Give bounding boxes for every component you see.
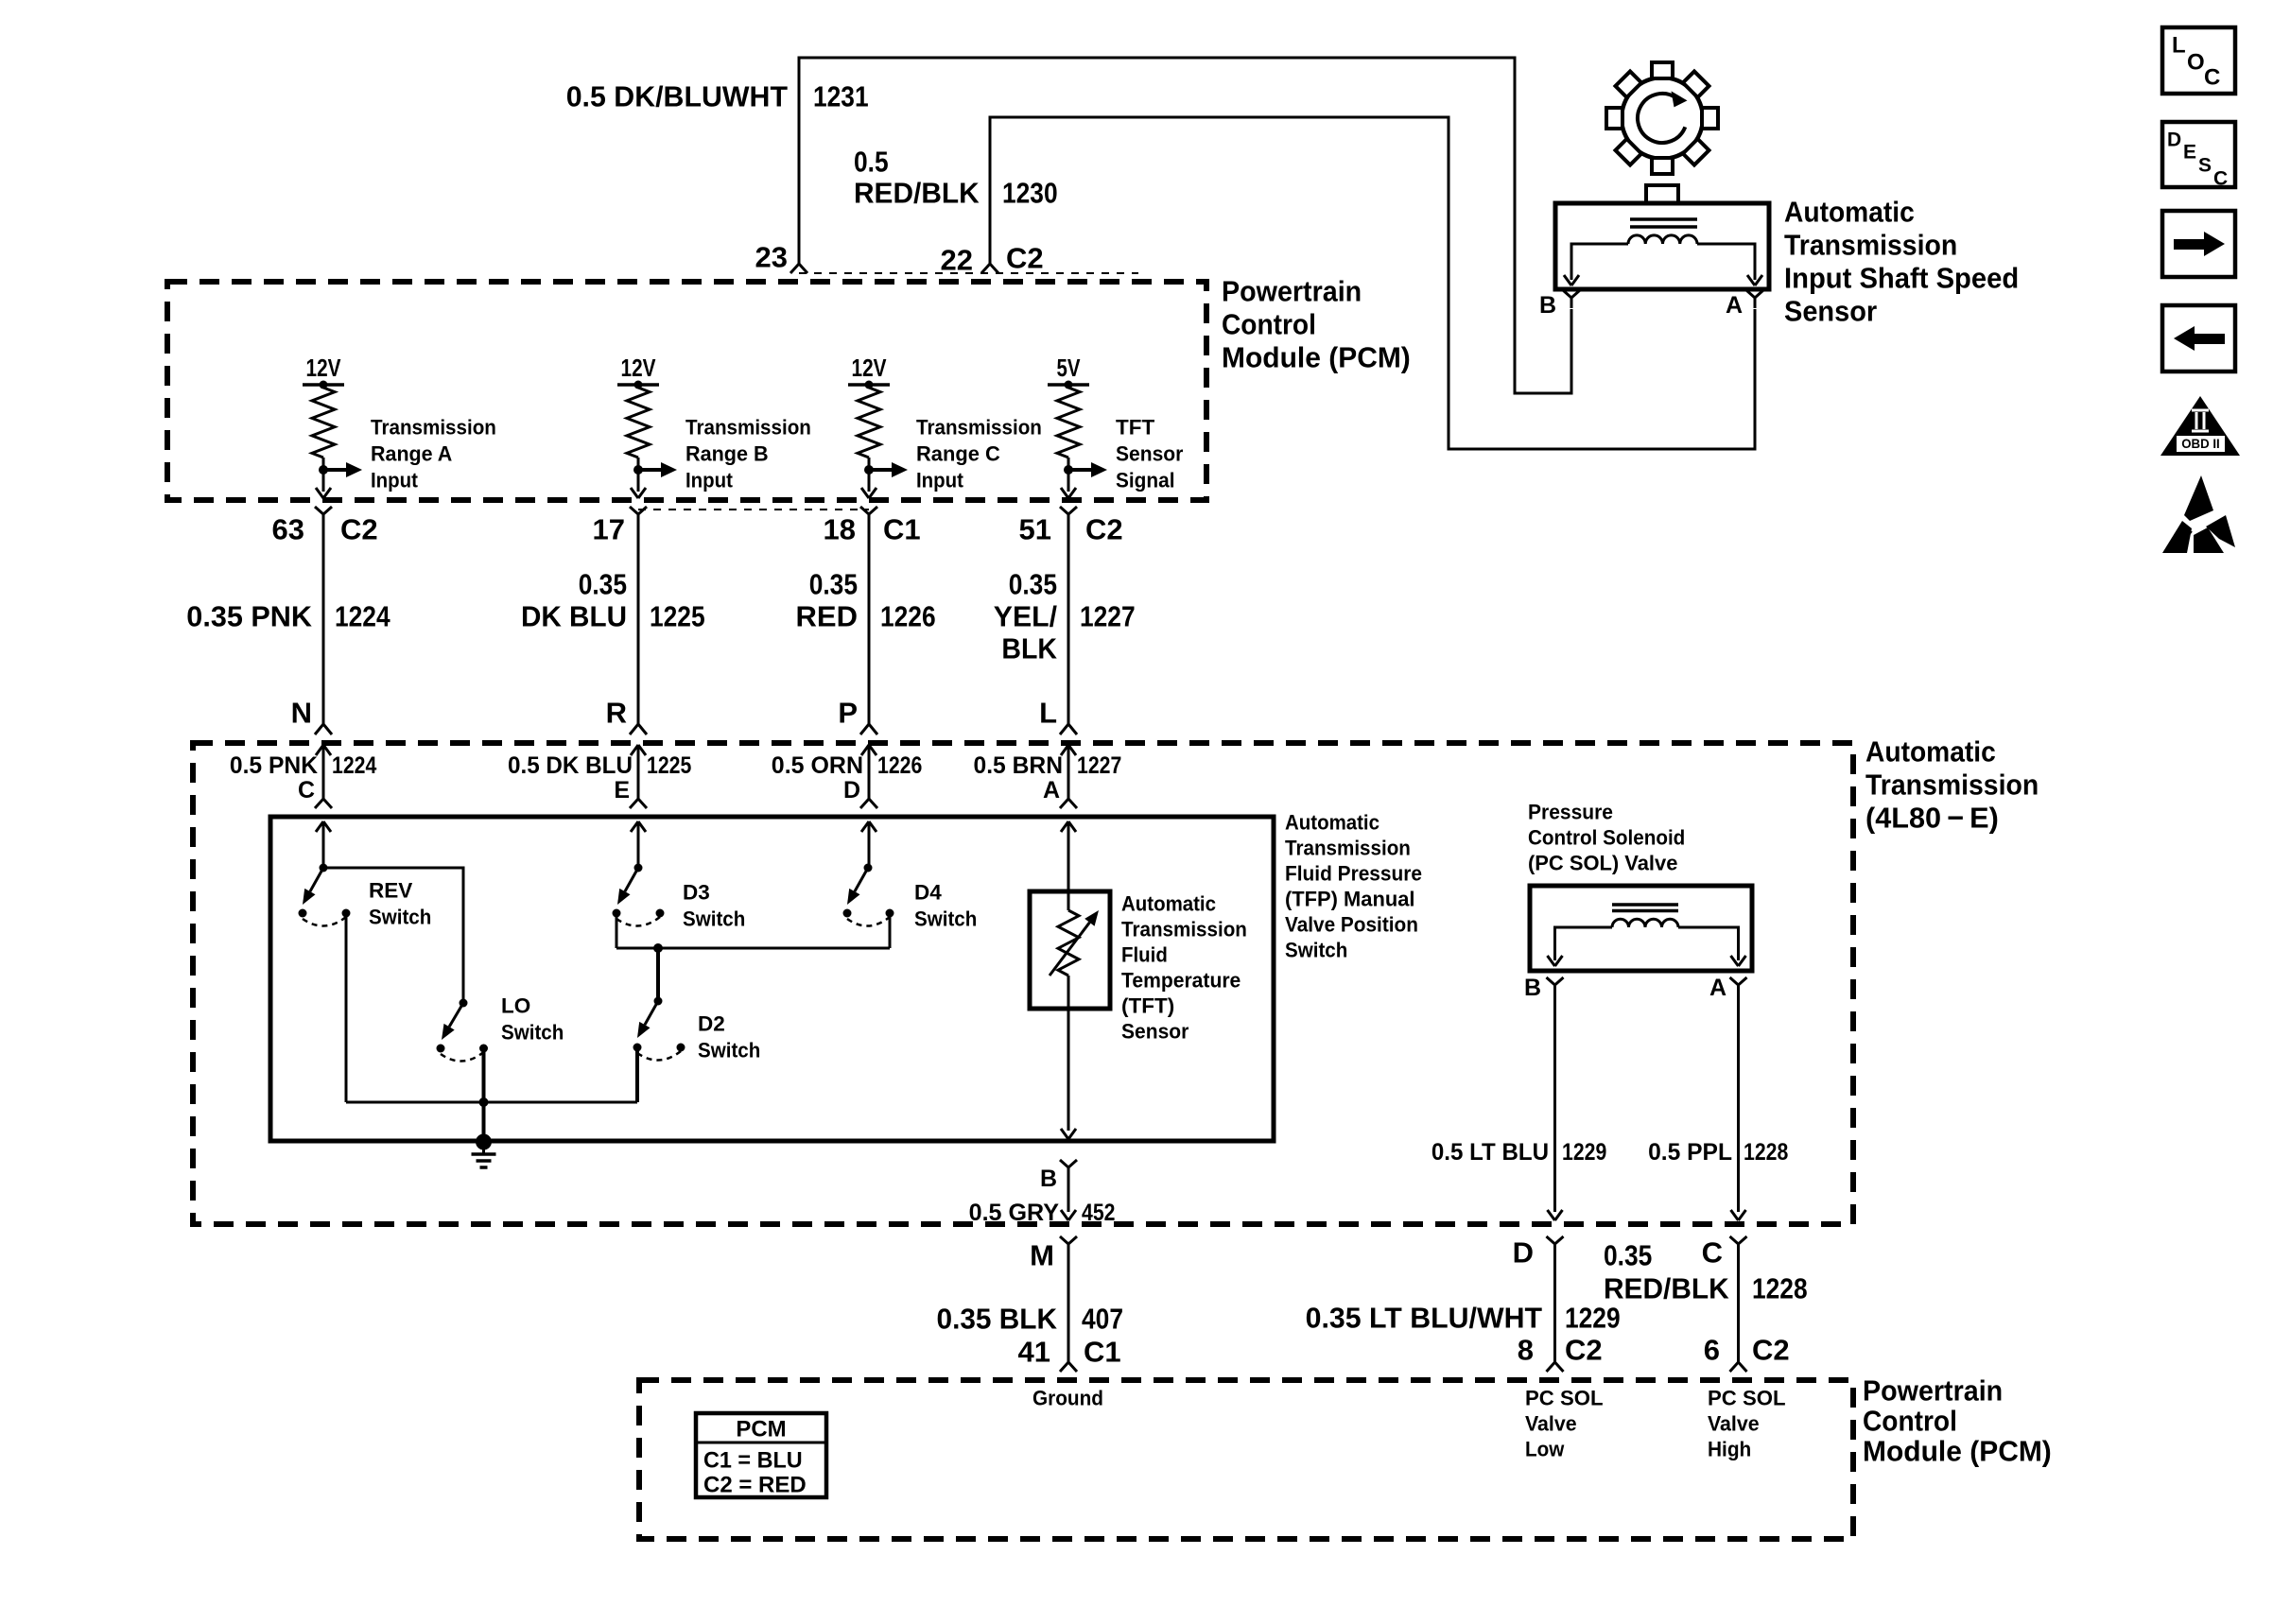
ISS inductor core (1630, 219, 1697, 227)
label 0.5 LT BLU 1229 (1431, 1139, 1606, 1166)
svg-text:Module (PCM): Module (PCM) (1222, 341, 1411, 374)
svg-text:Automatic: Automatic (1865, 735, 1996, 769)
TFP entry arrow col 3 (861, 821, 876, 868)
svg-text:17: 17 (593, 513, 625, 546)
svg-text:D4: D4 (914, 881, 942, 905)
svg-text:22: 22 (941, 244, 973, 277)
label 0.35 PNK 1224 (186, 600, 390, 633)
TFP entry arrow TFT column (1061, 821, 1076, 891)
svg-text:0.35: 0.35 (1604, 1239, 1652, 1272)
PCM connector legend table (696, 1413, 826, 1498)
svg-text:41: 41 (1018, 1336, 1050, 1369)
TFP entry arrow col 2 (631, 821, 646, 868)
svg-text:R: R (606, 697, 627, 730)
svg-text:Transmission: Transmission (1784, 229, 1957, 262)
svg-text:1224: 1224 (332, 752, 376, 779)
node N (291, 697, 312, 730)
svg-text:6: 6 (1704, 1334, 1720, 1367)
svg-text:N: N (291, 697, 312, 730)
label RED 1226 (796, 568, 936, 633)
wire LO contact to ground junction (482, 1048, 486, 1102)
svg-text:Switch: Switch (698, 1039, 760, 1063)
svg-text:D: D (1513, 1236, 1534, 1270)
D3 switch (613, 864, 665, 926)
wire 1229 PC SOL B to PCM (1548, 994, 1563, 1220)
svg-text:Transmission: Transmission (1285, 837, 1411, 860)
node P (838, 697, 858, 730)
label LO Switch (501, 994, 564, 1045)
svg-text:5V: 5V (1057, 354, 1082, 382)
pin M connector (1030, 1236, 1077, 1272)
svg-text:C2: C2 (1006, 242, 1044, 275)
svg-text:C: C (2213, 168, 2228, 190)
ISS sensor tab (1646, 185, 1678, 203)
label 0.5 DK/BLUWHT 1231 (566, 80, 869, 113)
wire 1228 PC SOL A to PCM (1731, 994, 1746, 1220)
svg-text:0.5 PNK: 0.5 PNK (230, 752, 318, 779)
svg-text:Valve Position: Valve Position (1285, 913, 1418, 937)
wire 1225 into TFP switch pin E (630, 745, 647, 808)
label Automatic Transmission Fluid Temperature (TFT) Sensor (1121, 892, 1247, 1044)
wire switch common bus (346, 1101, 637, 1104)
wire 1229 to pin 8 (1547, 1250, 1564, 1372)
wire REV pivot to LO switch (323, 868, 463, 1003)
svg-text:23: 23 (755, 241, 788, 274)
label pin 41 C1 (1018, 1336, 1121, 1369)
LO switch (437, 999, 489, 1062)
svg-text:Sensor: Sensor (1784, 295, 1877, 328)
svg-text:18: 18 (824, 513, 856, 546)
svg-text:A: A (1043, 777, 1060, 803)
label D3 Switch (683, 881, 745, 931)
label TFT Sensor Signal (1116, 416, 1184, 492)
label 0.5 RED/BLK 1230 (854, 146, 1058, 210)
svg-text:0.35: 0.35 (1009, 568, 1057, 601)
svg-text:1229: 1229 (1565, 1302, 1621, 1335)
svg-text:DK BLU: DK BLU (521, 600, 627, 633)
svg-text:BLK: BLK (1001, 632, 1057, 665)
svg-text:0.35 PNK: 0.35 PNK (186, 600, 312, 633)
svg-text:63: 63 (272, 513, 304, 546)
D2 switch (633, 997, 685, 1061)
label 0.5 PPL 1228 (1648, 1139, 1788, 1166)
PC SOL valve box (1530, 886, 1752, 971)
svg-text:Transmission: Transmission (371, 416, 496, 440)
svg-text:1229: 1229 (1562, 1139, 1606, 1166)
svg-text:TFT: TFT (1116, 416, 1154, 440)
pin 22 connector chevron (981, 264, 998, 273)
svg-text:PC SOL: PC SOL (1708, 1387, 1786, 1410)
svg-text:(4L80 − E): (4L80 − E) (1865, 802, 1999, 835)
svg-text:0.5 BRN: 0.5 BRN (974, 752, 1064, 779)
pin 23 connector chevron (790, 264, 807, 273)
svg-text:RED: RED (796, 600, 859, 633)
svg-text:C1: C1 (1084, 1336, 1121, 1369)
svg-text:Range C: Range C (916, 442, 1000, 466)
Powertrain Control Module (PCM) dashed box top (167, 282, 1206, 500)
ISS sensor box (1555, 203, 1769, 289)
PC SOL lead B (1548, 927, 1613, 966)
wire 407 ground wire (1060, 1250, 1077, 1372)
pin C connector (1702, 1236, 1747, 1270)
svg-text:Switch: Switch (914, 907, 977, 931)
svg-text:High: High (1708, 1438, 1751, 1461)
thin dashed connector line pins 23-22 (799, 272, 1138, 274)
label D4 Switch (914, 881, 977, 931)
svg-text:Transmission: Transmission (1865, 769, 2039, 802)
svg-text:0.5 ORN: 0.5 ORN (772, 752, 863, 779)
svg-text:1226: 1226 (877, 752, 922, 779)
svg-text:Valve: Valve (1708, 1412, 1760, 1436)
PC SOL lead A (1678, 927, 1746, 966)
svg-text:D: D (2167, 130, 2181, 151)
svg-text:C1: C1 (883, 513, 921, 546)
label Automatic Transmission Input Shaft Speed Sensor (1784, 196, 2019, 328)
svg-text:Fluid: Fluid (1121, 943, 1168, 967)
label pin 6 C2 (1704, 1334, 1790, 1367)
ISS pin B connector (1539, 290, 1580, 319)
wire 1226 from PCM to transmission pin P (860, 522, 877, 734)
label 0.5 ORN 1226 pin D (772, 752, 923, 803)
svg-text:1225: 1225 (650, 600, 705, 633)
svg-text:Input: Input (916, 469, 963, 492)
junction dot D2 branch (653, 943, 663, 953)
pin 17 connector (593, 507, 647, 546)
wire 1225 from PCM to transmission pin R (630, 522, 647, 734)
svg-text:Input Shaft Speed: Input Shaft Speed (1784, 262, 2019, 295)
resistor pull-up 12V Transmission Range C (848, 354, 908, 498)
pin D connector (1513, 1236, 1564, 1270)
svg-text:Automatic: Automatic (1784, 196, 1915, 229)
PC SOL coil (1612, 919, 1678, 927)
TFP entry arrow col 1 (316, 821, 331, 868)
label DK BLU 1225 (521, 568, 705, 633)
svg-text:REV: REV (369, 879, 412, 903)
label YEL/ 1227 (994, 568, 1136, 665)
svg-text:C1 = BLU: C1 = BLU (703, 1448, 803, 1474)
pin B connector TFT output (1040, 1160, 1077, 1192)
svg-text:51: 51 (1019, 513, 1051, 546)
wire D2 contact to bus (635, 1047, 639, 1102)
svg-text:B: B (1539, 292, 1556, 319)
resistor pull-up 5V Transmission Range TFT (1048, 354, 1107, 498)
svg-text:Transmission: Transmission (916, 416, 1042, 440)
svg-text:452: 452 (1082, 1200, 1116, 1226)
node L (1039, 697, 1057, 730)
svg-text:(PC SOL) Valve: (PC SOL) Valve (1528, 852, 1677, 875)
label Transmission Range B Input (685, 416, 811, 492)
svg-text:Automatic: Automatic (1121, 892, 1216, 916)
label D2 Switch (698, 1012, 760, 1063)
D4 switch (843, 864, 894, 926)
junction dot ground branch (479, 1097, 489, 1107)
svg-text:Input: Input (371, 469, 418, 492)
svg-text:Control: Control (1863, 1405, 1957, 1438)
label Powertrain Control Module (PCM) bottom (1863, 1374, 2052, 1468)
label 0.5 PNK 1224 pin C (230, 752, 376, 803)
label PC SOL Valve High (1708, 1387, 1786, 1461)
label 0.5 BRN 1227 pin A (974, 752, 1122, 803)
icon DESC box (2162, 122, 2235, 190)
svg-text:0.5: 0.5 (854, 146, 889, 179)
Automatic Transmission (4L80-E) dashed box (193, 743, 1853, 1224)
svg-text:Sensor: Sensor (1116, 442, 1184, 466)
icon LOC box (2162, 27, 2235, 94)
wire 1230 (0.5 RED/BLK) from PCM pin 22 to ISS sensor pin A (990, 117, 1755, 449)
label Pressure Control Solenoid (PC SOL) Valve (1528, 801, 1685, 875)
wire 1228 to pin 6 (1730, 1250, 1747, 1372)
svg-text:Range A: Range A (371, 442, 452, 466)
PC SOL pin A (1709, 975, 1747, 1001)
svg-text:PCM: PCM (736, 1417, 786, 1443)
wire D4 contact down (889, 913, 892, 948)
svg-text:Switch: Switch (369, 906, 431, 929)
ISS inner lead A (1697, 244, 1762, 285)
svg-text:Powertrain: Powertrain (1863, 1374, 2003, 1408)
wire TFT to box bottom (1061, 1009, 1076, 1139)
label REV Switch (369, 879, 431, 929)
svg-text:C: C (1702, 1236, 1723, 1270)
svg-text:C: C (298, 777, 315, 803)
label Automatic Transmission Fluid Pressure (TFP) Manual Valve Position Switch (1285, 811, 1422, 962)
svg-text:A: A (1709, 975, 1726, 1001)
label 0.35 RED/BLK 1228 (1604, 1239, 1808, 1305)
svg-text:407: 407 (1082, 1303, 1123, 1336)
svg-text:Transmission: Transmission (685, 416, 811, 440)
svg-text:12V: 12V (621, 354, 657, 382)
svg-text:1228: 1228 (1752, 1272, 1808, 1305)
svg-text:1226: 1226 (880, 600, 936, 633)
resistor pull-up 12V Transmission Range B (617, 354, 677, 498)
svg-text:D3: D3 (683, 881, 710, 905)
label Powertrain Control Module (PCM) top (1222, 275, 1411, 374)
wire 1227 from PCM to transmission pin L (1060, 522, 1077, 734)
svg-text:(TFP) Manual: (TFP) Manual (1285, 888, 1415, 911)
svg-text:8: 8 (1518, 1334, 1534, 1367)
REV switch (299, 864, 351, 926)
svg-text:RED/BLK: RED/BLK (854, 177, 980, 210)
svg-text:O: O (2187, 50, 2205, 76)
thin dashed connector line pins 17-18 (638, 509, 869, 510)
wire D3-D4 horizontal link (616, 947, 890, 950)
svg-text:Module (PCM): Module (PCM) (1863, 1435, 2052, 1468)
svg-text:Control: Control (1222, 308, 1316, 341)
svg-text:D2: D2 (698, 1012, 725, 1036)
svg-text:Range B: Range B (685, 442, 769, 466)
label PC SOL Valve Low (1525, 1387, 1604, 1461)
svg-text:P: P (838, 697, 858, 730)
label 0.5 GRY 452 (969, 1200, 1116, 1226)
svg-text:YEL/: YEL/ (994, 600, 1058, 633)
label 0.35 BLK 407 (937, 1303, 1124, 1336)
svg-text:Temperature: Temperature (1121, 969, 1241, 993)
svg-text:1228: 1228 (1744, 1139, 1788, 1166)
svg-text:S: S (2198, 155, 2212, 177)
icon left-arrow box (2162, 305, 2235, 371)
svg-text:C2 = RED: C2 = RED (703, 1473, 807, 1498)
svg-text:C2: C2 (340, 513, 378, 546)
wire REV contact to bus (345, 913, 348, 1102)
svg-text:C2: C2 (1752, 1334, 1790, 1367)
svg-text:Transmission: Transmission (1121, 918, 1247, 942)
svg-text:L: L (1039, 697, 1057, 730)
PC SOL pin B (1524, 975, 1564, 1001)
svg-text:Ground: Ground (1032, 1387, 1103, 1410)
pin 63 C2 connector (272, 507, 378, 546)
TFT sensor element (1050, 891, 1099, 1009)
svg-text:(TFT): (TFT) (1121, 994, 1174, 1018)
label 0.35 LT BLU/WHT 1229 (1306, 1302, 1621, 1335)
Powertrain Control Module (PCM) dashed box bottom (639, 1380, 1853, 1539)
svg-text:1230: 1230 (1002, 177, 1058, 210)
svg-text:PC SOL: PC SOL (1525, 1387, 1604, 1410)
svg-text:C2: C2 (1565, 1334, 1603, 1367)
svg-text:12V: 12V (306, 354, 342, 382)
wire D3 contact down (616, 913, 618, 948)
label Transmission Range A Input (371, 416, 496, 492)
label pin 8 C2 (1518, 1334, 1603, 1367)
svg-text:Low: Low (1525, 1438, 1565, 1461)
svg-text:0.5 DK/BLUWHT: 0.5 DK/BLUWHT (566, 80, 788, 113)
svg-text:L: L (2172, 33, 2186, 59)
svg-text:Switch: Switch (1285, 939, 1347, 962)
svg-text:0.35 BLK: 0.35 BLK (937, 1303, 1058, 1336)
svg-text:0.5 LT BLU: 0.5 LT BLU (1431, 1139, 1549, 1166)
label Automatic Transmission (4L80-E) (1865, 735, 2039, 835)
svg-text:A: A (1726, 292, 1743, 319)
svg-text:Control Solenoid: Control Solenoid (1528, 826, 1685, 850)
wire 1227 into TFP switch pin A (1060, 745, 1077, 808)
icon right-arrow box (2162, 211, 2235, 277)
ISS pin A connector (1726, 290, 1763, 319)
svg-text:0.5 DK BLU: 0.5 DK BLU (508, 752, 633, 779)
svg-text:0.35: 0.35 (579, 568, 627, 601)
wire junction to D2 pivot (656, 948, 660, 1001)
TFP manual valve position switch box (270, 817, 1274, 1141)
svg-text:Fluid Pressure: Fluid Pressure (1285, 862, 1422, 886)
svg-text:B: B (1040, 1166, 1057, 1192)
svg-text:C: C (2204, 65, 2220, 91)
TFT sensor box (1030, 891, 1110, 1009)
wire 1226 into TFP switch pin D (860, 745, 877, 808)
svg-text:Automatic: Automatic (1285, 811, 1379, 835)
svg-text:M: M (1030, 1239, 1054, 1272)
wire 1231 (0.5 DK/BLUWHT) from PCM pin 23 to ISS sensor pin B (799, 58, 1571, 393)
svg-text:Switch: Switch (683, 907, 745, 931)
svg-text:Switch: Switch (501, 1021, 564, 1045)
svg-text:B: B (1524, 975, 1541, 1001)
svg-text:1224: 1224 (335, 600, 390, 633)
svg-text:0.5 PPL: 0.5 PPL (1648, 1139, 1732, 1166)
svg-text:D: D (843, 777, 860, 803)
svg-text:0.5 GRY: 0.5 GRY (969, 1200, 1060, 1226)
icon ESD triangle (2161, 473, 2237, 554)
ground (472, 1134, 496, 1168)
svg-text:Powertrain: Powertrain (1222, 275, 1362, 308)
pin labels 23 22 C2 (755, 241, 1044, 277)
label Ground (1032, 1387, 1103, 1410)
svg-text:0.35 LT BLU/WHT: 0.35 LT BLU/WHT (1306, 1302, 1542, 1335)
svg-text:RED/BLK: RED/BLK (1604, 1272, 1729, 1305)
svg-text:Input: Input (685, 469, 733, 492)
wire 1224 from PCM to transmission pin N (315, 522, 332, 734)
svg-text:1227: 1227 (1080, 600, 1136, 633)
icon OBD II triangle (2160, 396, 2240, 456)
svg-text:E: E (614, 777, 630, 803)
svg-text:Sensor: Sensor (1121, 1020, 1189, 1044)
wire 1224 into TFP switch pin C (315, 745, 332, 808)
ISS inner lead B (1564, 244, 1628, 285)
resistor pull-up 12V Transmission Range A (303, 354, 362, 498)
svg-text:Pressure: Pressure (1528, 801, 1613, 824)
svg-text:1225: 1225 (647, 752, 691, 779)
pin 18 C1 connector (824, 507, 921, 546)
wire 452 to transmission edge (1061, 1176, 1076, 1220)
label Transmission Range C Input (916, 416, 1042, 492)
svg-text:1227: 1227 (1077, 752, 1121, 779)
PC SOL inductor core (1612, 905, 1678, 911)
gear icon (rotating input shaft) (1606, 62, 1718, 174)
svg-text:E: E (2183, 142, 2196, 164)
ISS inductor coil (1628, 235, 1697, 244)
svg-text:1231: 1231 (813, 80, 869, 113)
svg-text:Valve: Valve (1525, 1412, 1577, 1436)
label 0.5 DK BLU 1225 pin E (508, 752, 691, 803)
svg-text:0.35: 0.35 (809, 568, 858, 601)
wire bus to ground (482, 1102, 486, 1142)
node R (606, 697, 627, 730)
svg-text:C2: C2 (1085, 513, 1123, 546)
svg-text:12V: 12V (852, 354, 888, 382)
svg-text:Signal: Signal (1116, 469, 1175, 492)
pin 51 C2 connector (1019, 507, 1123, 546)
svg-text:OBD II: OBD II (2181, 437, 2220, 451)
svg-text:LO: LO (501, 994, 530, 1018)
